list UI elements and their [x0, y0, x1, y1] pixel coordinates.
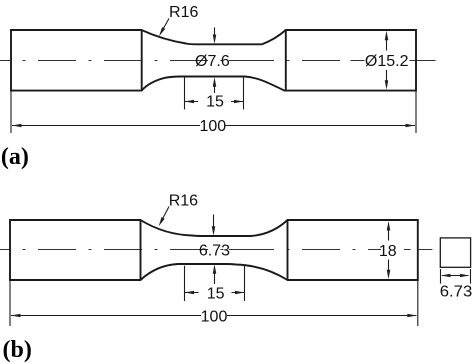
svg-text:15: 15	[207, 285, 225, 302]
svg-text:Ø15.2: Ø15.2	[365, 53, 409, 70]
svg-text:100: 100	[201, 308, 228, 325]
svg-text:Ø7.6: Ø7.6	[195, 53, 230, 70]
svg-text:100: 100	[199, 118, 226, 135]
svg-text:18: 18	[379, 243, 397, 260]
svg-text:(b): (b)	[3, 337, 32, 363]
svg-text:R16: R16	[169, 4, 198, 21]
svg-text:6.73: 6.73	[440, 283, 473, 300]
svg-text:15: 15	[206, 94, 224, 111]
svg-text:(a): (a)	[1, 144, 29, 170]
svg-text:R16: R16	[169, 193, 198, 210]
svg-text:6.73: 6.73	[199, 242, 230, 259]
